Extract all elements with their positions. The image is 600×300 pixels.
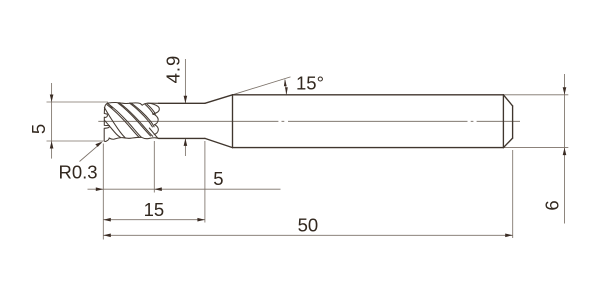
- flute silhouette: top wavy edge: [107, 102, 158, 105]
- tool outline: [159, 95, 513, 148]
- 15deg arc top arrow: [284, 79, 287, 86]
- ext line at neck end x=204.9: [204, 141, 206, 223]
- left dia5 top arrow (down): [50, 95, 54, 103]
- taper bottom: [205, 138, 233, 147]
- svg-text:15: 15: [144, 199, 165, 220]
- dim50 left arrow (pointing left): [103, 234, 111, 238]
- dim15 right arrow (pointing right): [197, 218, 205, 222]
- 4.9 dimension line bottom: [184, 138, 186, 156]
- diagonal flute line Le (pair): [147, 104, 156, 114]
- svg-text:5: 5: [28, 124, 49, 134]
- end face: [512, 106, 514, 138]
- taper top: [205, 95, 233, 104]
- flute right-end S curl 2: [153, 114, 159, 125]
- dim15 left arrow (pointing left): [103, 218, 111, 222]
- svg-text:4.9: 4.9: [162, 55, 183, 84]
- svg-text:6: 6: [542, 200, 563, 210]
- taper/shank junction vertical: [232, 95, 234, 148]
- svg-text:R0.3: R0.3: [59, 161, 98, 182]
- diagonal flute line Ld (pair): [131, 103, 154, 127]
- flute right-end top blob: [148, 103, 160, 114]
- shank bottom: [233, 147, 504, 149]
- svg-text:5: 5: [213, 168, 223, 189]
- dim line 50: [103, 234, 512, 236]
- short gash line at top-left corner: [107, 103, 112, 108]
- R0.3 leader: [80, 143, 102, 162]
- dia6: dimension line: [564, 74, 566, 224]
- ext line at flute end x=154.3: [153, 141, 155, 193]
- left dia5: dimension line: [51, 83, 53, 159]
- dim line 5 (flute length): [88, 188, 281, 190]
- shank end vertical (chamfer tangent): [502, 95, 504, 148]
- 15deg arc bottom arrow: [285, 87, 288, 94]
- ext line at tool right end x=512.7: [512, 150, 514, 238]
- dimension texts: [28, 55, 563, 236]
- shank top: [233, 94, 504, 96]
- 4.9 top arrow (down): [184, 96, 188, 104]
- flute silhouette: left profile with teeth notches: [104, 103, 109, 141]
- dia6: bottom extension line: [503, 147, 568, 149]
- diagonal flute line Lb (pair): [108, 104, 141, 138]
- left dia5: bottom extension line: [47, 140, 104, 142]
- neck top: [159, 102, 205, 104]
- centerline: [98, 120, 520, 122]
- R0.3 leader arrow: [95, 142, 102, 147]
- dim5 left arrow (pointing right): [96, 187, 104, 191]
- 15 deg extended taper line: [233, 77, 291, 95]
- dia6: top extension line: [503, 94, 568, 96]
- left dia5 bottom arrow (up): [50, 141, 54, 149]
- 4.9 dimension line top: [184, 59, 186, 103]
- dia6 bottom arrow (up, below line): [563, 148, 567, 156]
- ext line at tool tip x=103.3: [102, 144, 104, 240]
- dim50 right arrow (pointing right): [505, 234, 513, 238]
- flute right-end S curl 3: [154, 125, 158, 135]
- flute right-end lower diagonal: [149, 128, 158, 138]
- chamfer top: [503, 95, 512, 106]
- dim5 right arrow (pointing left): [154, 187, 162, 191]
- arrowheads: [50, 79, 567, 237]
- chamfer bottom: [503, 138, 512, 148]
- neck bottom: [159, 137, 205, 139]
- svg-text:50: 50: [298, 215, 319, 236]
- dimension + extension lines: [47, 59, 569, 240]
- flute silhouette: bottom wavy edge: [106, 137, 158, 141]
- left dia5: top extension line: [47, 101, 108, 103]
- svg-text:15°: 15°: [296, 73, 324, 94]
- diagonal flute line Lc (pair): [119, 103, 153, 137]
- dia6 top arrow (down, above line): [563, 87, 567, 95]
- 4.9 bottom arrow (up): [184, 138, 188, 146]
- diagonal flute line La (pair): [104, 108, 125, 138]
- dim line 15: [103, 219, 205, 221]
- flute section: [104, 102, 159, 141]
- 15 deg arc: [285, 80, 286, 95]
